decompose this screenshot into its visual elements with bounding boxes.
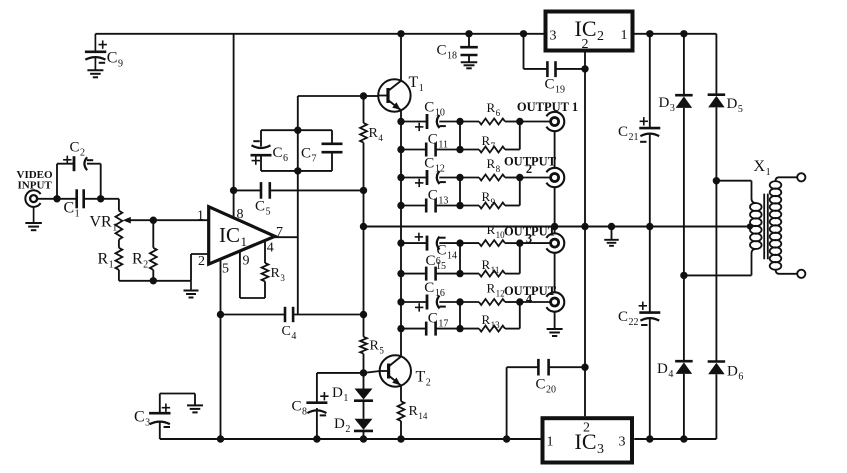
- connector output1 jack: [546, 112, 564, 131]
- label R3: [271, 266, 286, 283]
- label OUTPUT 4: [504, 284, 557, 306]
- wire C20 left: [503, 367, 539, 442]
- potentiometer VR1: [116, 211, 154, 240]
- svg-text:2: 2: [198, 254, 205, 269]
- label C6: [273, 145, 289, 164]
- wire input to C1: [38, 195, 77, 202]
- label C9: [107, 50, 123, 70]
- wire out node to jack: [520, 301, 550, 303]
- capacitor C18: [460, 30, 478, 62]
- wire D3 to transformer node: [680, 108, 687, 279]
- svg-text:1: 1: [547, 435, 554, 450]
- wire branch C16 left: [397, 298, 427, 305]
- wire C4 node to R5: [363, 315, 365, 337]
- wire emitter bus across mid: [400, 206, 402, 329]
- wire C2 branch right: [87, 164, 101, 199]
- wire pin 7 output: [275, 236, 298, 238]
- ground below R1 R2 node: [184, 281, 199, 298]
- diode D1: [354, 373, 373, 401]
- resistor R12: [479, 299, 505, 305]
- wire C5 to R4 node: [270, 187, 367, 194]
- label C12: [424, 156, 445, 175]
- pin 1 label: [197, 209, 204, 224]
- wire C2 branch left: [57, 164, 74, 199]
- diode D3: [675, 95, 693, 108]
- wire C6 C7 loop: [261, 127, 332, 175]
- label OUTPUT 1: [517, 100, 578, 114]
- label C1: [64, 200, 80, 220]
- wire D6 to bottom rail: [715, 374, 717, 439]
- transistor T1: [378, 79, 410, 111]
- label R8: [487, 156, 501, 174]
- connector output3 jack: [546, 233, 564, 252]
- label R11: [482, 257, 500, 275]
- connector output4 jack: [546, 292, 564, 311]
- label VIDEO INPUT: [17, 169, 54, 191]
- wire T1 base: [298, 92, 379, 99]
- wire node to R8: [460, 177, 479, 179]
- capacitor C5: [261, 182, 270, 199]
- resistor R10: [479, 240, 505, 246]
- wire branch C15 left: [397, 270, 426, 277]
- label T2: [416, 369, 431, 389]
- terminal X1 top: [797, 173, 805, 181]
- capacitor C9: [85, 34, 107, 71]
- capacitor C13: [426, 199, 435, 213]
- wire C11 to node: [436, 146, 464, 153]
- resistor R4: [360, 123, 367, 143]
- capacitor C7: [322, 144, 343, 152]
- ic IC3 voltage regulator: [543, 418, 633, 462]
- junction pin5 line bottom: [217, 435, 224, 442]
- capacitor C4: [285, 307, 293, 322]
- wire C12 C13 node bus: [459, 178, 461, 206]
- wire R3 to pin 9: [240, 252, 265, 299]
- ground below C9: [87, 70, 103, 77]
- wire R10 to out node: [505, 239, 524, 246]
- wire node to R10: [460, 242, 479, 244]
- wire C1 to VR1 node: [84, 195, 119, 202]
- ground below video input: [25, 207, 41, 230]
- wire T2 base: [364, 371, 380, 373]
- svg-text:3: 3: [526, 231, 532, 245]
- ground below output 4: [547, 329, 563, 336]
- wire T1 collector to rail: [397, 30, 404, 81]
- label C16: [424, 280, 445, 299]
- wire jack column 1-2: [554, 131, 556, 168]
- capacitor C3: [149, 394, 170, 440]
- wire C4 right to main line: [293, 311, 367, 318]
- label R5: [370, 339, 385, 356]
- pin 1 label IC2: [621, 28, 628, 43]
- wire C14 to node: [439, 239, 463, 246]
- wire R4 to mid rail: [360, 143, 367, 231]
- diode D6: [708, 362, 726, 375]
- pin 5 label: [222, 262, 229, 277]
- label IC2: [575, 16, 605, 44]
- label D5: [727, 96, 743, 115]
- capacitor C6: [251, 141, 272, 165]
- wire out node to jack: [520, 242, 550, 244]
- wire IC3 pin 2 vertical: [584, 227, 586, 417]
- svg-text:1: 1: [621, 28, 628, 43]
- connector output2 jack: [546, 168, 564, 187]
- wire D2 to bottom rail: [360, 431, 367, 443]
- pin 4 label: [267, 241, 274, 256]
- wire R5 to T2 base node: [360, 354, 367, 377]
- pin 3 label IC2: [550, 29, 557, 44]
- label IC1: [219, 223, 247, 249]
- wire pin 5 vertical: [220, 260, 222, 440]
- wire R6 to out node: [505, 118, 524, 125]
- wire node to R6: [460, 121, 479, 123]
- wire out node to jack: [520, 177, 550, 179]
- wire bus to T2 collector: [400, 329, 402, 357]
- resistor R9: [479, 203, 505, 209]
- label C20: [536, 377, 557, 396]
- label C5: [255, 199, 271, 218]
- resistor R1: [116, 240, 123, 281]
- label C15: [426, 253, 447, 272]
- label C8: [292, 399, 308, 418]
- wire C15 to node: [436, 270, 464, 277]
- wire C16 C17 node bus: [459, 302, 461, 329]
- wire R7 up to out node: [505, 122, 520, 150]
- wire node to R13: [460, 328, 479, 330]
- wire base node to R4: [363, 96, 365, 123]
- label C14: [437, 243, 458, 262]
- resistor R6: [479, 119, 505, 125]
- wire branch C11 left: [397, 146, 426, 153]
- wire R12 to out node: [505, 298, 524, 305]
- svg-text:1: 1: [197, 209, 204, 224]
- label X1: [754, 158, 771, 178]
- wire C8 to bottom rail: [313, 408, 320, 443]
- svg-text:9: 9: [243, 253, 250, 268]
- wire C3 to ground: [160, 394, 195, 406]
- resistor R7: [479, 147, 505, 153]
- wire C19 left: [520, 30, 548, 69]
- wire T1 emitter bus: [400, 110, 402, 205]
- wire node to R11: [460, 273, 479, 275]
- wire pin 8 to +V rail: [233, 34, 235, 218]
- wire jack column 2-3: [551, 187, 558, 233]
- pin 2 label: [198, 254, 205, 269]
- transformer X1 secondary winding: [770, 177, 798, 273]
- capacitor C1: [77, 189, 84, 208]
- diode D5: [708, 95, 726, 108]
- svg-text:4: 4: [267, 241, 274, 256]
- label R2: [132, 251, 148, 271]
- wire R13 up to out node: [505, 302, 520, 329]
- label R12: [487, 281, 505, 299]
- resistor R14: [398, 401, 405, 421]
- wire C13 to node: [436, 202, 464, 209]
- wire R14 to bottom rail: [397, 421, 404, 443]
- label C17: [428, 310, 449, 329]
- capacitor C15: [426, 267, 435, 281]
- wire feedback vertical: [297, 96, 299, 315]
- wire pin 4 lead: [264, 241, 266, 263]
- svg-text:2: 2: [582, 37, 589, 52]
- diode D2: [354, 401, 373, 431]
- pin 7 label: [276, 225, 283, 240]
- pin 1 label IC3: [547, 435, 554, 450]
- capacitor C8: [306, 392, 328, 415]
- ground right of C3: [187, 405, 203, 412]
- transistor T2: [380, 355, 411, 386]
- wire D4 to bottom rail: [680, 374, 687, 443]
- wire C14 C15 node bus: [459, 243, 461, 274]
- wire branch C14 left: [397, 239, 427, 246]
- wire node to R12: [460, 301, 479, 303]
- wire branch C12 left: [397, 174, 427, 181]
- label R6: [487, 100, 501, 118]
- label T1: [409, 74, 424, 94]
- wire D5 line top: [715, 34, 717, 95]
- svg-text:OUTPUT 1: OUTPUT 1: [517, 100, 578, 114]
- capacitor C22: [639, 302, 661, 325]
- wire C10 C11 node bus: [459, 122, 461, 150]
- ic IC2 voltage regulator: [546, 12, 633, 51]
- label D1: [332, 385, 348, 404]
- wire D3 line top: [680, 30, 687, 95]
- wire C20 to IC3 pin2 line: [549, 364, 589, 371]
- wire C22 to bottom rail: [646, 318, 653, 443]
- label OUTPUT 3: [504, 225, 557, 246]
- resistor R8: [479, 175, 505, 181]
- resistor R2: [150, 220, 157, 281]
- terminal X1 bottom: [797, 270, 805, 278]
- wire C10 to node: [439, 118, 463, 125]
- pin 2 label IC3: [583, 421, 590, 436]
- wire node to R7: [460, 149, 479, 151]
- wire C21 to mid rail: [646, 134, 653, 231]
- pin 2 label IC2: [582, 37, 589, 52]
- wire C4 line: [217, 311, 285, 318]
- svg-text:3: 3: [550, 29, 557, 44]
- label C19: [545, 77, 566, 96]
- label C18: [437, 43, 458, 62]
- wire out node to jack: [520, 121, 550, 123]
- capacitor C20: [538, 359, 548, 376]
- wire C8 top lead: [317, 373, 364, 403]
- wire T2 emitter to R14: [400, 386, 402, 402]
- ground on mid rail: [604, 223, 619, 246]
- wire bottom rail right of IC3: [634, 438, 716, 440]
- resistor R13: [479, 326, 505, 332]
- wire node to R9: [460, 205, 479, 207]
- wire C5 node line: [230, 187, 261, 194]
- wire D5 node down to D6: [715, 181, 717, 362]
- resistor R11: [479, 271, 505, 277]
- label C4: [282, 324, 297, 342]
- pin 8 label: [237, 207, 244, 222]
- wire R11 up to out node: [505, 243, 520, 274]
- diode D4: [675, 275, 693, 374]
- wire jack column 3-4: [554, 253, 556, 293]
- wire C21 line top: [646, 30, 653, 128]
- label R1: [98, 251, 114, 271]
- wire branch C10 left: [397, 118, 427, 125]
- wire bottom -V rail (left segment): [160, 438, 541, 440]
- wire C19 to IC2 pin 2: [556, 51, 589, 73]
- pin 9 label: [243, 253, 250, 268]
- label C2: [70, 140, 86, 159]
- wire mid rail to C4 node: [363, 227, 365, 315]
- wire jack 4 to ground: [554, 312, 556, 329]
- transformer X1 core: [764, 194, 768, 260]
- capacitor C10: [415, 114, 446, 131]
- label IC3: [575, 429, 605, 457]
- pin 3 label IC3: [619, 435, 626, 450]
- wire R8 to out node: [505, 174, 524, 181]
- label C11: [428, 131, 448, 150]
- wire top rail right of IC2: [634, 33, 716, 35]
- label C7: [301, 146, 317, 165]
- capacitor C12: [415, 170, 446, 187]
- label R7: [482, 133, 496, 151]
- wire C16 to node: [439, 298, 463, 305]
- wire branch C13 left: [397, 202, 426, 209]
- label VR1: [90, 214, 118, 234]
- resistor R3: [262, 263, 269, 281]
- capacitor C21: [639, 117, 660, 142]
- label D4: [657, 361, 673, 380]
- wire R9 up to out node: [505, 178, 520, 206]
- svg-text:2: 2: [583, 421, 590, 436]
- svg-text:5: 5: [222, 262, 229, 277]
- label C13: [428, 187, 449, 206]
- wire to VR1: [118, 199, 120, 211]
- op-amp IC1: [209, 207, 275, 264]
- wire C12 to node: [439, 174, 463, 181]
- wire pin2 lead: [191, 254, 209, 281]
- capacitor C17: [426, 322, 435, 336]
- svg-text:6: 6: [436, 256, 441, 267]
- label R13: [482, 312, 501, 330]
- label D6: [727, 364, 743, 383]
- capacitor C2: [63, 156, 93, 172]
- label R10: [487, 222, 506, 240]
- connector video input jack: [25, 190, 40, 207]
- wire C17 to node: [436, 325, 464, 332]
- wire mid rail to C22: [649, 227, 651, 313]
- transformer X1 primary winding: [684, 181, 762, 276]
- label C21: [618, 124, 639, 143]
- label R9: [482, 189, 496, 207]
- label D2: [334, 416, 350, 435]
- label D3: [659, 95, 675, 114]
- wire branch C17 left: [397, 325, 426, 332]
- wire wiper node to pin1: [150, 217, 209, 224]
- capacitor C14: [415, 233, 446, 251]
- resistor R5: [360, 337, 367, 354]
- wire D5 to transformer node: [713, 107, 720, 184]
- label R14: [409, 404, 428, 421]
- wire top +V rail (left segment): [95, 33, 543, 35]
- label C10: [424, 100, 445, 119]
- label C3: [134, 409, 150, 429]
- label C22: [618, 309, 639, 328]
- capacitor C19: [547, 61, 555, 77]
- svg-text:3: 3: [619, 435, 626, 450]
- wire R1 R2 bottom node: [119, 277, 191, 284]
- wire mid ground rail: [364, 226, 750, 228]
- svg-text:2: 2: [526, 162, 532, 176]
- label R4: [369, 126, 384, 143]
- capacitor C11: [426, 143, 435, 157]
- wire IC2 pin2 line to mid rail: [581, 69, 588, 231]
- svg-text:8: 8: [237, 207, 244, 222]
- ground below C18: [461, 62, 478, 68]
- capacitor C16: [415, 295, 446, 312]
- svg-text:4: 4: [526, 292, 533, 306]
- label OUTPUT 2: [504, 155, 557, 177]
